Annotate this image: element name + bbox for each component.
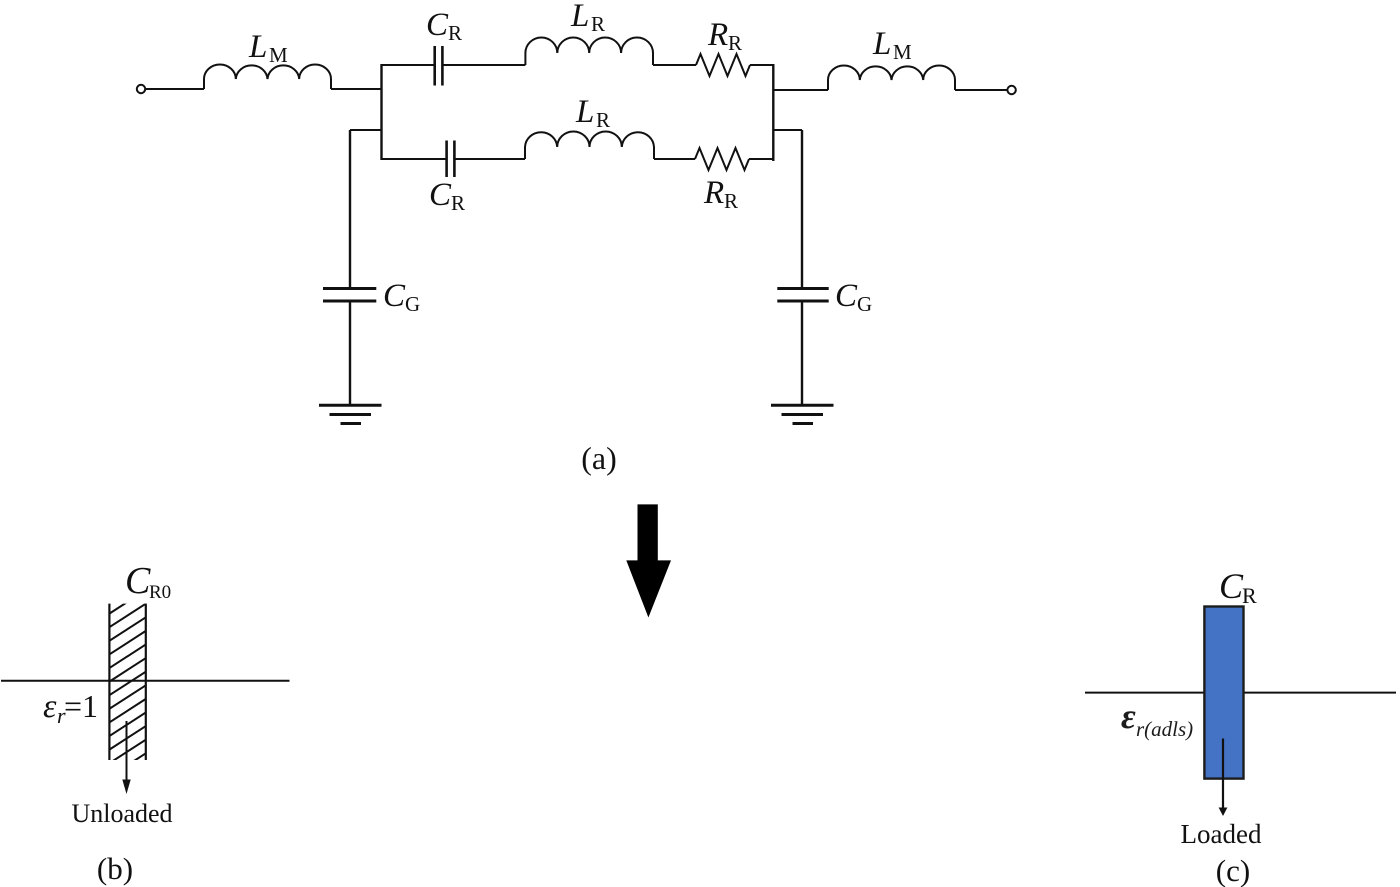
svg-text:Loaded: Loaded (1181, 819, 1262, 849)
svg-text:M: M (893, 40, 912, 64)
svg-text:C: C (1219, 566, 1244, 606)
svg-text:R: R (591, 12, 605, 36)
svg-text:(a): (a) (581, 440, 617, 476)
svg-text:R0: R0 (149, 582, 171, 603)
svg-text:G: G (405, 292, 420, 316)
svg-text:=1: =1 (64, 688, 98, 724)
svg-text:M: M (269, 43, 288, 67)
svg-text:R: R (596, 108, 610, 132)
svg-text:G: G (857, 292, 872, 316)
svg-text:(c): (c) (1216, 853, 1250, 887)
svg-text:Unloaded: Unloaded (71, 799, 172, 828)
svg-text:L: L (575, 94, 594, 130)
svg-text:C: C (429, 177, 452, 213)
svg-text:R: R (448, 21, 462, 45)
svg-text:C: C (426, 7, 449, 43)
svg-text:R: R (451, 191, 465, 215)
svg-text:R: R (707, 17, 728, 53)
svg-text:C: C (835, 278, 858, 314)
svg-text:ε: ε (1121, 696, 1136, 736)
svg-text:L: L (872, 26, 891, 62)
svg-text:R: R (724, 189, 738, 213)
svg-text:R: R (1242, 583, 1257, 608)
svg-text:r(adls): r(adls) (1136, 717, 1193, 741)
svg-text:L: L (248, 29, 267, 65)
svg-text:C: C (125, 560, 151, 602)
svg-text:R: R (703, 175, 724, 211)
svg-text:R: R (728, 31, 742, 55)
svg-text:L: L (570, 0, 589, 34)
svg-text:C: C (383, 278, 406, 314)
svg-text:ε: ε (43, 688, 57, 725)
svg-text:(b): (b) (97, 851, 133, 886)
